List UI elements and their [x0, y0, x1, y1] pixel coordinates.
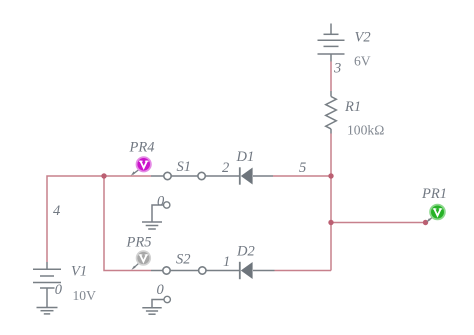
svg-text:2: 2: [222, 160, 229, 176]
svg-text:0: 0: [157, 282, 165, 298]
svg-text:1: 1: [223, 254, 230, 270]
svg-text:PR1: PR1: [421, 186, 447, 202]
svg-text:PR4: PR4: [129, 140, 155, 156]
svg-text:R1: R1: [344, 99, 361, 115]
svg-text:PR5: PR5: [126, 235, 152, 251]
svg-text:5: 5: [299, 160, 306, 176]
svg-text:S1: S1: [177, 159, 192, 175]
svg-text:V1: V1: [71, 264, 87, 280]
svg-text:D2: D2: [236, 244, 255, 260]
svg-text:0: 0: [157, 194, 165, 210]
svg-text:10V: 10V: [73, 288, 97, 303]
svg-text:100kΩ: 100kΩ: [347, 123, 384, 138]
svg-text:V2: V2: [355, 29, 371, 45]
svg-text:0: 0: [55, 282, 63, 298]
svg-text:6V: 6V: [354, 54, 371, 69]
svg-text:D1: D1: [236, 149, 255, 165]
svg-text:S2: S2: [176, 252, 191, 268]
svg-text:3: 3: [333, 61, 341, 77]
svg-text:4: 4: [53, 203, 60, 219]
